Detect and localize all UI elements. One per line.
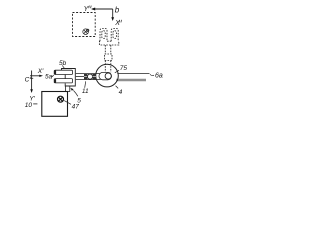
- svg-text:4: 4: [119, 89, 123, 96]
- svg-text:b: b: [115, 6, 120, 15]
- svg-text:X′: X′: [37, 68, 44, 75]
- svg-text:10: 10: [25, 102, 33, 109]
- svg-text:11: 11: [82, 88, 89, 95]
- svg-text:47: 47: [72, 104, 80, 111]
- svg-text:6a: 6a: [155, 72, 163, 79]
- svg-text:75: 75: [120, 65, 128, 72]
- svg-text:C′: C′: [25, 77, 32, 84]
